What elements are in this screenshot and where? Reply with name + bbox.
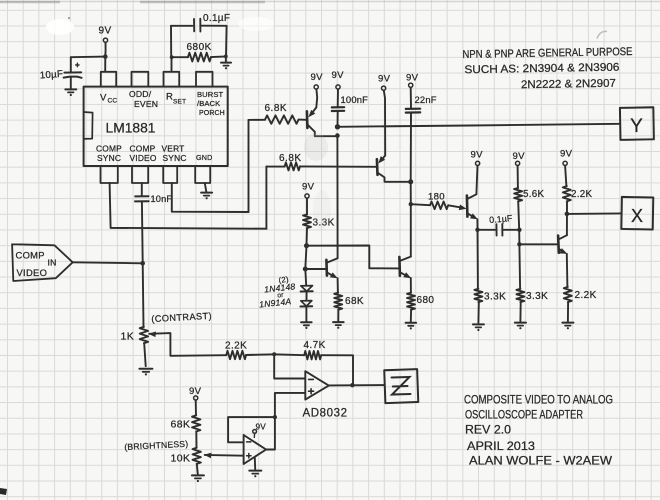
svg-text:COMP: COMP	[130, 144, 156, 154]
svg-text:COMP: COMP	[96, 144, 122, 154]
svg-text:PORCH: PORCH	[199, 110, 225, 117]
svg-text:3.3K: 3.3K	[484, 292, 506, 303]
svg-text:BURST: BURST	[197, 90, 223, 99]
svg-text:10K: 10K	[171, 453, 191, 465]
svg-text:6.8K: 6.8K	[265, 103, 288, 114]
svg-text:2.2K: 2.2K	[571, 189, 593, 200]
svg-text:GND: GND	[196, 153, 213, 162]
svg-text:APRIL 2013: APRIL 2013	[467, 439, 535, 453]
svg-text:68K: 68K	[345, 296, 364, 307]
svg-text:22nF: 22nF	[415, 94, 437, 105]
svg-text:/BACK: /BACK	[197, 99, 220, 108]
svg-text:IN: IN	[48, 258, 57, 268]
svg-text:180: 180	[428, 192, 445, 203]
svg-text:10µF: 10µF	[39, 69, 63, 82]
svg-text:LM1881: LM1881	[106, 120, 156, 135]
svg-text:9V: 9V	[471, 150, 484, 161]
svg-text:9V: 9V	[406, 73, 419, 84]
svg-text:R: R	[166, 92, 173, 103]
svg-text:SET: SET	[173, 99, 186, 106]
svg-text:Y: Y	[630, 116, 643, 137]
svg-text:9V: 9V	[256, 423, 267, 432]
svg-text:VIDEO: VIDEO	[130, 153, 157, 163]
svg-text:2.2K: 2.2K	[575, 290, 597, 301]
svg-text:10nF: 10nF	[151, 194, 173, 204]
svg-text:9V: 9V	[99, 26, 112, 37]
svg-text:AD8032: AD8032	[303, 408, 348, 420]
svg-text:EVEN: EVEN	[134, 99, 158, 109]
svg-text:1K: 1K	[121, 331, 135, 343]
svg-text:9V: 9V	[378, 74, 391, 85]
svg-text:ALAN WOLFE - W2AEW: ALAN WOLFE - W2AEW	[469, 453, 613, 467]
svg-text:OSCILLOSCOPE ADAPTER: OSCILLOSCOPE ADAPTER	[465, 407, 583, 421]
svg-text:4.7K: 4.7K	[304, 340, 326, 351]
svg-text:X: X	[631, 206, 643, 226]
svg-text:COMPOSITE VIDEO TO ANALOG: COMPOSITE VIDEO TO ANALOG	[464, 392, 613, 406]
svg-text:9V: 9V	[332, 70, 345, 81]
svg-text:9V: 9V	[513, 151, 526, 162]
svg-text:100nF: 100nF	[341, 94, 369, 105]
svg-text:REV 2.0: REV 2.0	[465, 422, 511, 436]
svg-text:SYNC: SYNC	[163, 153, 187, 163]
svg-text:0.1µF: 0.1µF	[203, 13, 230, 24]
svg-text:9V: 9V	[302, 182, 315, 193]
svg-text:2.2K: 2.2K	[225, 341, 247, 352]
svg-text:SYNC: SYNC	[97, 153, 121, 163]
svg-text:CC: CC	[108, 98, 118, 105]
svg-text:VERT: VERT	[162, 144, 185, 154]
svg-text:68K: 68K	[171, 419, 191, 431]
svg-text:COMP: COMP	[16, 250, 45, 261]
svg-text:9V: 9V	[311, 72, 324, 83]
svg-text:680: 680	[417, 295, 435, 306]
svg-text:3.3K: 3.3K	[526, 291, 548, 302]
svg-text:6.8K: 6.8K	[279, 153, 302, 164]
svg-text:5.6K: 5.6K	[523, 189, 545, 200]
svg-text:ODD/: ODD/	[129, 89, 152, 99]
svg-text:0.1µF: 0.1µF	[489, 213, 513, 225]
svg-text:680K: 680K	[187, 42, 212, 53]
svg-text:9V: 9V	[560, 149, 573, 160]
svg-text:2N2222 & 2N2907: 2N2222 & 2N2907	[521, 78, 616, 92]
svg-text:VIDEO: VIDEO	[17, 267, 48, 278]
svg-text:V: V	[100, 93, 107, 104]
